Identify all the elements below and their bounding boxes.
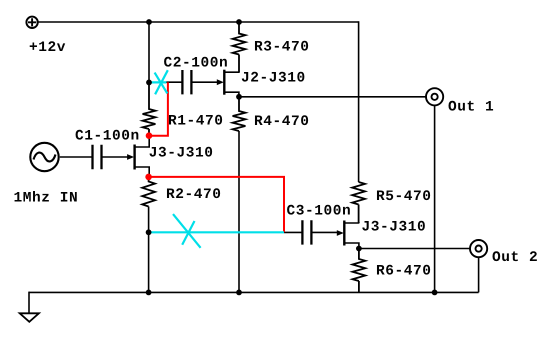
transistor J3 (left, J3-J310)	[127, 136, 149, 177]
svg-text:J3-J310: J3-J310	[362, 220, 427, 236]
wire bottom ground rail	[29, 291, 479, 293]
node junction dot 2	[236, 19, 242, 25]
wire R2 bottom to rail	[148, 207, 150, 293]
resistor R2	[142, 177, 155, 207]
power terminal +12v	[26, 17, 37, 28]
wire x=358.6 column (top rail down to R5)	[358, 21, 360, 182]
wire C3 to J4 gate	[311, 231, 337, 233]
wire R4 bottom lead to rail	[238, 131, 240, 292]
wire J2 source row to Out 1	[239, 96, 426, 98]
wire x=149 from top rail to node at C2 row	[148, 22, 150, 82]
resistor R4	[233, 97, 246, 131]
node junction dot 7	[146, 290, 152, 296]
wire C3 row: red corner to C3	[284, 231, 302, 233]
wire 1Mhz source to C1	[60, 156, 93, 158]
terminal Out 2	[470, 240, 487, 257]
wire J4 source row to Out 2	[359, 248, 471, 250]
svg-text:Out 2: Out 2	[492, 250, 538, 266]
delete mark X1	[155, 70, 168, 94]
svg-text:C1-100n: C1-100n	[75, 129, 140, 145]
svg-text:R4-470: R4-470	[254, 114, 310, 130]
wire ground stub	[28, 292, 30, 314]
capacitor C3	[302, 220, 311, 244]
svg-text:R1-470: R1-470	[168, 114, 224, 130]
resistor R1	[143, 82, 156, 135]
svg-text:J2-J310: J2-J310	[241, 71, 306, 87]
node junction dot 6	[356, 246, 362, 252]
transistor J4 (bottom right, J3-J310)	[337, 221, 359, 249]
delete mark X2	[173, 214, 201, 248]
wire C2 row: node stub to C2 and C2 to J2 gate	[166, 81, 182, 83]
ground	[20, 313, 39, 322]
svg-text:R2-470: R2-470	[166, 187, 222, 203]
node junction dot 3	[146, 80, 152, 86]
capacitor C2	[182, 70, 191, 94]
node red dot B (J3 source)	[145, 174, 152, 181]
svg-text:R6-470: R6-470	[376, 264, 432, 280]
svg-text:J3-J310: J3-J310	[149, 146, 214, 162]
node red dot A (J3 drain)	[146, 132, 153, 139]
resistor R6	[353, 249, 366, 293]
svg-text:R5-470: R5-470	[376, 189, 432, 205]
wire cyan deleted segment at C2 row	[149, 81, 167, 83]
transistor J2 (top, J2-J310)	[217, 70, 239, 97]
svg-text:R3-470: R3-470	[254, 40, 310, 56]
svg-text:C2-100n: C2-100n	[164, 56, 229, 72]
signal source 1Mhz IN	[30, 143, 58, 171]
svg-text:+12v: +12v	[29, 40, 66, 56]
wire top +12v rail	[38, 21, 359, 23]
node junction dot 9	[432, 290, 438, 296]
terminal Out 1	[426, 88, 443, 105]
resistor R5	[352, 182, 365, 223]
svg-text:Out 1: Out 1	[448, 99, 494, 115]
wire red reroute 1 (J3 drain to C2 net)	[149, 82, 168, 135]
capacitor C1	[93, 145, 102, 169]
wire Out 1 down to bottom rail	[434, 105, 436, 292]
node junction dot 1	[146, 19, 152, 25]
wire C1 to J3 gate	[102, 156, 128, 158]
node junction dot 5	[146, 229, 152, 235]
node junction dot 4	[236, 94, 242, 100]
wire Out 2 down to bottom rail	[478, 257, 480, 293]
node junction dot 8	[236, 290, 242, 296]
svg-text:1Mhz IN: 1Mhz IN	[14, 190, 79, 206]
resistor R3	[233, 22, 246, 72]
svg-text:C3-100n: C3-100n	[287, 204, 352, 220]
wire cyan deleted segment at C3 row	[149, 231, 284, 233]
wire red reroute 2 (J3 source to C3 net)	[149, 177, 284, 232]
